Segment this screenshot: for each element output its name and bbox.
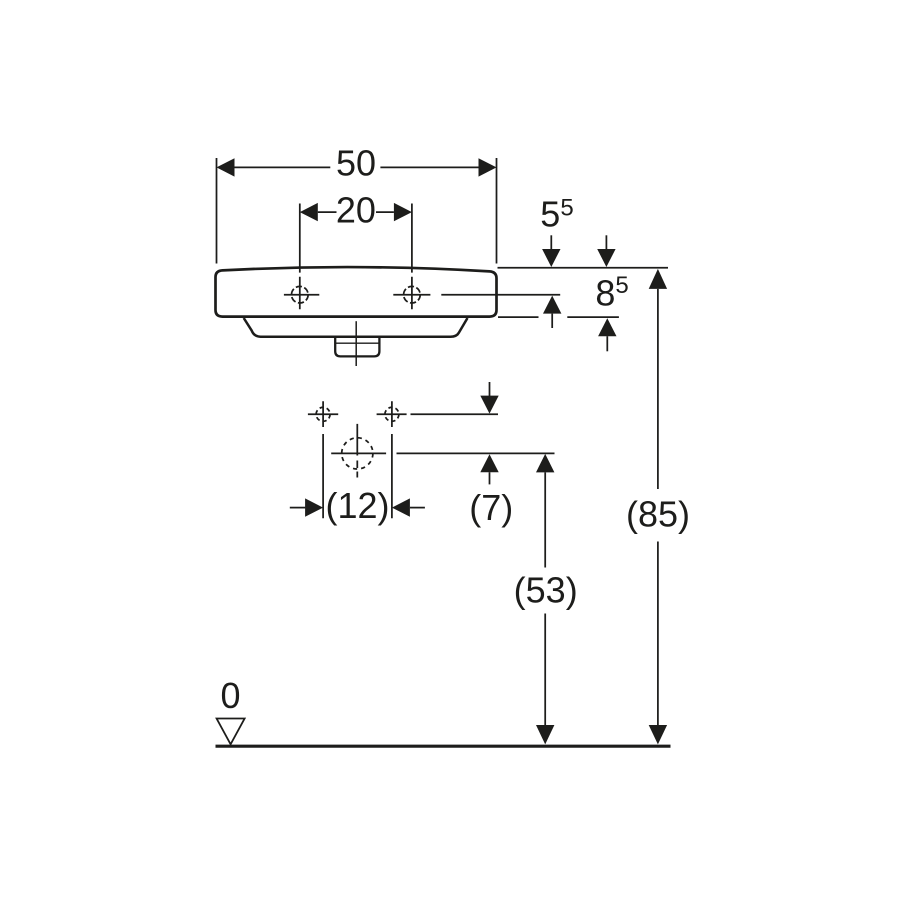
dimension 20: right arrowhead <box>394 203 412 221</box>
tap hole left: horizontal crosshair <box>284 294 319 296</box>
drain centerline <box>355 321 357 366</box>
floor line <box>216 745 671 748</box>
dimension 50: left extension line <box>216 158 218 264</box>
dimension 12: left arrow with tail <box>290 507 306 509</box>
bracket hole right: vertical centerline / 12-dim extension <box>391 401 393 518</box>
dimension 20: left arrowhead <box>300 203 318 221</box>
dimension 50: left arrowhead <box>217 158 235 176</box>
svg-text:0: 0 <box>220 675 240 716</box>
bracket hole height leader line <box>411 413 499 415</box>
datum zero triangle <box>217 719 245 745</box>
tap hole right: dashed circle <box>404 286 421 303</box>
dimension 5.5: right down arrow with tail <box>605 235 607 249</box>
basin top reference line extended right <box>498 267 669 269</box>
dimension 85: bottom down arrow <box>649 725 667 744</box>
svg-text:55: 55 <box>540 194 573 235</box>
tap hole height leader line <box>441 294 560 296</box>
dimension 8.5: lower up arrow with tail <box>598 318 616 336</box>
rim bottom edge extension segments <box>498 316 619 318</box>
dimension 7: lower up arrow with tail <box>480 454 498 472</box>
basin underside trapezoid <box>244 318 468 337</box>
svg-text:(7): (7) <box>469 487 513 528</box>
svg-text:85: 85 <box>595 272 628 314</box>
svg-text:(53): (53) <box>514 570 578 611</box>
tap hole left centerline / 20-dim extension <box>299 204 301 310</box>
dimension 50: line segments <box>235 166 479 168</box>
svg-text:50: 50 <box>336 143 376 184</box>
dimension 53: vertical line with up arrow <box>536 454 554 473</box>
tap hole right: horizontal crosshair <box>393 294 430 296</box>
dimension 5.5: left down arrow with tail <box>550 235 552 249</box>
bracket hole left: horizontal crosshair <box>308 413 338 415</box>
bracket hole right: horizontal crosshair <box>377 413 407 415</box>
tap hole left: dashed circle <box>292 286 309 303</box>
dimension 53: bottom down arrow <box>536 725 554 744</box>
dimension 12: right arrow with tail <box>392 498 410 516</box>
dimension 7: upper down arrow with tail <box>489 382 491 396</box>
svg-text:(85): (85) <box>626 494 690 535</box>
tap hole right centerline / 20-dim extension <box>411 204 413 310</box>
basin rim outline (front view) <box>216 267 497 317</box>
dimension 85: vertical line with up arrow <box>649 269 667 289</box>
bracket hole left: vertical centerline / 12-dim extension <box>322 401 324 518</box>
bracket hole right: dashed circle <box>385 407 399 421</box>
dimension 50: right extension line <box>496 158 498 264</box>
svg-text:20: 20 <box>336 189 376 230</box>
dimension 8.5: upper up arrow with tail <box>543 296 561 314</box>
drain fitting cup <box>335 338 379 357</box>
drain fitting lip line <box>336 342 379 344</box>
dimension 20: line segments <box>318 211 394 213</box>
dimension 50: right arrowhead <box>479 158 497 176</box>
bracket hole left: dashed circle <box>316 407 330 421</box>
siphon: vertical centerline <box>356 424 358 478</box>
siphon: dashed circle <box>342 438 373 469</box>
svg-text:(12): (12) <box>325 485 389 526</box>
siphon height leader line <box>331 452 554 454</box>
